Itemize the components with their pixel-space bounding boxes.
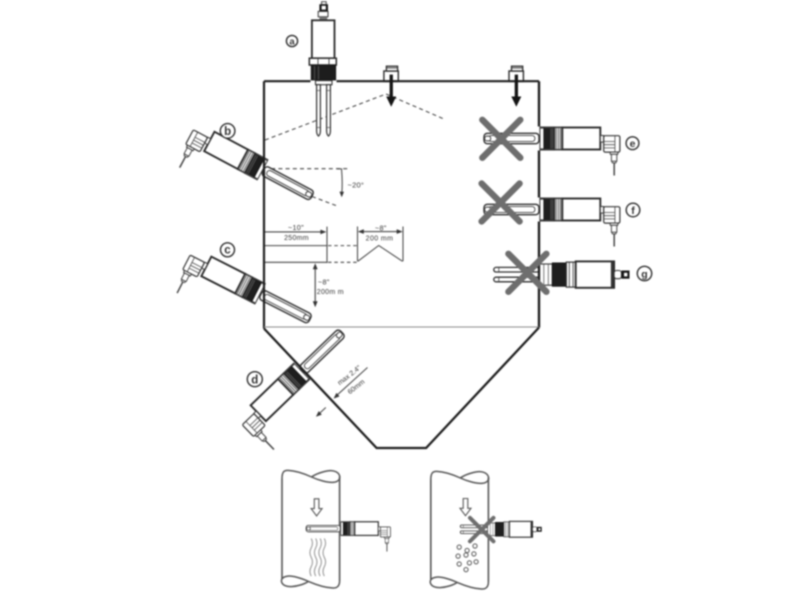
svg-text:a: a [289,36,295,47]
left pipe [281,470,339,588]
X mark over sensor e [478,115,525,162]
svg-text:f: f [631,205,635,217]
right pipe [430,471,488,589]
sensor c [172,247,315,352]
dimension 8in 200mm (mountain) [358,223,404,261]
left pipe sensor [306,522,390,552]
right pipe sensor [460,521,541,537]
svg-text:~10": ~10" [288,223,304,232]
svg-text:~20°: ~20° [348,181,365,190]
sensor g [494,261,630,287]
label a [286,35,297,47]
dimension 10in 250mm [264,223,358,263]
dimension max 2.4in 60mm at sensor d [316,364,368,416]
angle annotation 20deg at sensor b [264,169,364,207]
svg-text:e: e [630,138,636,150]
left pipe flow arrow [311,499,322,516]
filling nozzle 2 [509,66,523,81]
svg-text:~8": ~8" [318,278,330,287]
material surface dashed line [265,94,444,140]
vessel outline [264,81,539,448]
filling stream arrow 2 [511,75,521,107]
label c [221,243,235,257]
X mark over right pipe sensor [467,515,496,544]
sensor e [484,127,620,175]
svg-text:200 mm: 200 mm [366,236,394,243]
right pipe flow arrow [460,499,471,516]
svg-text:~8": ~8" [375,223,387,232]
svg-text:g: g [641,268,647,280]
label e [626,137,639,150]
label d [247,372,262,387]
label g [637,266,651,280]
svg-text:250mm: 250mm [284,235,309,242]
sensor b [175,122,318,229]
svg-text:d: d [251,374,258,386]
sensor d [236,324,367,453]
svg-text:b: b [224,126,231,138]
filling stream arrow 1 [386,75,396,107]
sensor a [309,2,336,136]
vertical dimension 8in 200mm [313,263,344,307]
falling particles [456,544,478,572]
filling nozzle 1 [384,66,398,81]
svg-text:60mm: 60mm [347,378,367,396]
X mark over sensor g [504,249,551,296]
svg-text:200m m: 200m m [317,289,344,296]
svg-text:c: c [224,245,231,257]
sensor f [484,198,620,246]
left pipe flow wavy lines [310,539,326,577]
label f [626,203,640,217]
X mark over sensor f [477,179,524,226]
label b [220,124,235,139]
